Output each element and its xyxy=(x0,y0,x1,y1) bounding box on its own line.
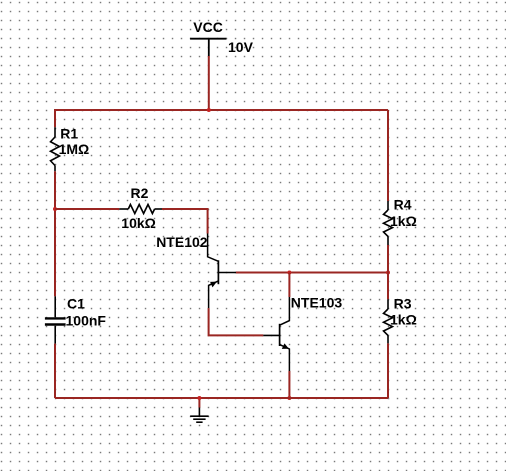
resistor R1 xyxy=(51,127,60,171)
wire left rail middle (R1 to C1) xyxy=(54,171,56,296)
resistor R2 xyxy=(119,205,162,214)
svg-text:NTE103: NTE103 xyxy=(291,295,343,311)
wire right rail lower (R3 to bottom rail) xyxy=(387,343,389,398)
wire bottom rail xyxy=(55,397,388,399)
junction top rail / VCC xyxy=(207,108,211,112)
wire R2 to Q1 collector (corner) xyxy=(162,209,208,234)
junction bottom rail / Q2 emitter xyxy=(287,396,291,400)
wire Q1 emitter down and to Q2 base xyxy=(209,308,264,335)
resistor R4 xyxy=(384,201,393,245)
svg-text:R4: R4 xyxy=(394,197,412,213)
wire Q2 emitter down to bottom rail xyxy=(288,371,290,398)
wire right rail middle (R4 to R3) xyxy=(387,245,389,299)
transistor Q1 NTE102 (PNP, mirrored) xyxy=(208,234,236,309)
wire VCC lead to top rail xyxy=(208,56,210,110)
Q2 emitter arrow (points away from bar: NPN) xyxy=(282,343,289,349)
Q1 emitter arrow (points toward base bar: PNP) xyxy=(210,282,217,288)
transistor Q2 NTE103 (NPN) xyxy=(263,297,289,371)
junction bottom rail / ground xyxy=(197,396,201,400)
svg-text:10V: 10V xyxy=(228,39,254,55)
wire left rail upper (top rail to R1) xyxy=(54,109,56,127)
junction Q2 collector node xyxy=(287,271,291,275)
wire right rail upper (top rail to R4) xyxy=(387,110,389,201)
svg-text:1MΩ: 1MΩ xyxy=(59,141,90,157)
svg-text:R2: R2 xyxy=(131,185,149,201)
svg-text:1kΩ: 1kΩ xyxy=(390,213,417,229)
svg-text:R3: R3 xyxy=(394,296,412,312)
svg-text:1kΩ: 1kΩ xyxy=(390,312,417,328)
svg-text:C1: C1 xyxy=(67,296,85,312)
resistor R3 xyxy=(384,299,393,343)
wire R2 left lead xyxy=(55,208,119,210)
svg-text:NTE102: NTE102 xyxy=(156,234,208,250)
junction right rail node xyxy=(386,271,390,275)
wire Q1 base to right rail xyxy=(236,272,388,274)
svg-text:R1: R1 xyxy=(60,125,78,141)
svg-text:10kΩ: 10kΩ xyxy=(121,215,156,231)
svg-text:VCC: VCC xyxy=(193,19,223,35)
wire Q2 collector up to node xyxy=(288,273,290,298)
wire top rail xyxy=(55,109,388,111)
svg-text:100nF: 100nF xyxy=(66,312,107,328)
wire ground lead xyxy=(198,398,200,408)
power VCC symbol xyxy=(190,39,226,57)
junction left rail / R2 xyxy=(53,207,57,211)
capacitor C1 xyxy=(45,296,66,343)
ground symbol xyxy=(190,408,208,423)
wire left rail lower (C1 to bottom rail) xyxy=(54,344,56,398)
